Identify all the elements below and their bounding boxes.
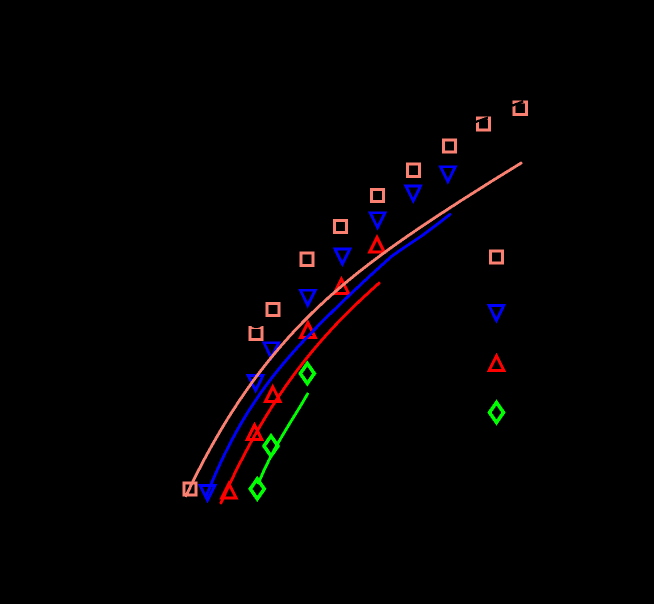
marker square S2	[478, 118, 490, 130]
marker triangle-up T5	[247, 425, 262, 440]
marker triangle-down V8	[200, 485, 215, 500]
salmon fit curve	[186, 163, 521, 496]
marker square S9	[250, 327, 262, 339]
marker triangle-down V3	[370, 213, 385, 228]
marker thin-diamond D3	[250, 479, 264, 499]
marker thin-diamond D2	[264, 436, 278, 456]
black overdraw line on square S1	[512, 101, 523, 105]
marker triangle-up T6	[222, 484, 237, 499]
black overdraw line on square S2	[476, 118, 489, 122]
marker thin-diamond D1	[300, 364, 314, 384]
legend triangle-up	[489, 356, 504, 371]
legend square	[490, 251, 502, 263]
red fit curve	[221, 283, 379, 503]
marker triangle-down V1	[441, 167, 456, 182]
marker square S3	[444, 140, 456, 152]
marker triangle-up T2	[334, 279, 349, 294]
marker triangle-up T3	[301, 323, 316, 338]
legend triangle-down	[489, 306, 504, 321]
marker triangle-down V2	[406, 186, 421, 201]
blue fit curve	[207, 215, 451, 496]
marker triangle-down V7	[248, 376, 263, 391]
marker square S10	[184, 483, 196, 495]
marker triangle-up T4	[266, 387, 281, 402]
marker triangle-down V5	[300, 290, 315, 305]
green fit curve	[259, 394, 308, 483]
legend thin-diamond	[490, 403, 504, 423]
marker square S6	[334, 220, 346, 232]
marker triangle-down V6	[264, 343, 279, 358]
marker triangle-up T1	[370, 238, 385, 253]
marker square S8	[267, 303, 279, 315]
marker square S4	[408, 164, 420, 176]
black overdraw circle on square S9	[248, 312, 264, 328]
marker square S1	[514, 102, 526, 114]
marker square S5	[372, 190, 384, 202]
marker triangle-down V4	[335, 249, 350, 264]
marker square S7	[301, 253, 313, 265]
